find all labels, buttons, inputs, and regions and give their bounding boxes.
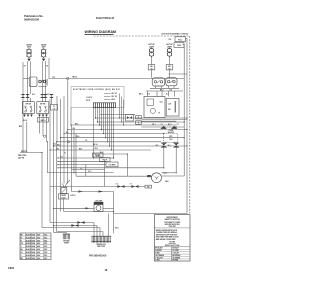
wire EOC pin drop <box>93 108 95 158</box>
wire SU1 lead b lower <box>30 98 32 102</box>
row label smudges <box>56 148 82 158</box>
wire row 169 <box>72 169 106 171</box>
wire bus row <box>68 129 188 131</box>
svg-text:105C: 105C <box>44 243 47 245</box>
wire to ground comb <box>54 232 67 234</box>
connector pair <box>21 94 26 98</box>
junction open circles <box>44 135 46 137</box>
wire staircase feeder <box>56 96 58 142</box>
wire label box <box>166 65 173 71</box>
cooling fan motor M2 <box>94 199 103 211</box>
lead connector mark <box>45 115 48 117</box>
connector box P14 <box>174 43 184 48</box>
svg-text:600V: 600V <box>37 258 40 260</box>
wire lower link <box>64 211 114 213</box>
svg-text:BU: BU <box>21 249 23 251</box>
svg-text:INF SW: INF SW <box>40 103 46 105</box>
indicator lamp <box>148 44 155 57</box>
wire EOC pin drop <box>95 108 97 118</box>
wire EOC pin drop <box>97 108 99 122</box>
svg-text:ELECTROLUX: ELECTROLUX <box>96 16 114 20</box>
wire supply cord <box>20 152 42 154</box>
wire to terminal pin <box>93 223 95 237</box>
latch box B2 <box>166 99 179 117</box>
wire motor left lead row <box>76 175 152 177</box>
wire drop <box>60 138 62 212</box>
wire bus row <box>50 149 151 151</box>
lead connector mark <box>42 115 45 117</box>
sensor plug left <box>161 143 167 147</box>
inline connector arrow <box>86 207 90 209</box>
svg-text:C802: C802 <box>8 267 15 270</box>
EOC pin header connector <box>93 103 116 108</box>
wire relay lead <box>154 86 156 88</box>
wire switch feed down <box>26 122 28 153</box>
wire EOC pin drop <box>113 108 115 158</box>
wire label box W <box>136 116 142 120</box>
svg-text:BEFORE SERVICING: BEFORE SERVICING <box>165 224 181 226</box>
wire below clock b <box>142 120 177 122</box>
wire P13 out b <box>185 39 187 41</box>
wire under relays a <box>150 87 179 89</box>
wire motor right lead <box>161 175 184 177</box>
svg-text:OVEN: OVEN <box>169 130 173 132</box>
electronic oven control EOC box <box>71 87 124 108</box>
wire EOC relay out <box>121 97 123 123</box>
svg-text:P1: P1 <box>53 106 55 108</box>
wire left edge lower <box>22 98 24 153</box>
terminal block connector G2 <box>92 236 112 248</box>
label box P11 <box>93 153 104 157</box>
svg-text:1091: 1091 <box>169 139 173 141</box>
wire EOC pin drop <box>107 108 109 142</box>
svg-text:PK PINK: PK PINK <box>172 260 178 262</box>
wire staircase feeder <box>53 111 55 146</box>
svg-text:RLY K2: RLY K2 <box>112 96 117 98</box>
wire left edge upper <box>22 62 24 94</box>
wire to terminal pin <box>96 226 98 237</box>
wire switch to P1 <box>49 106 51 108</box>
wire drop to row 172 <box>46 142 48 173</box>
wire motor M2 right <box>103 207 114 209</box>
wire bake feed <box>50 186 145 188</box>
wire bus row <box>57 141 162 143</box>
infinite switch S2 <box>37 102 49 114</box>
relay K2 <box>166 78 177 86</box>
wire SU1 lead a <box>27 61 29 101</box>
svg-text:RLY K1: RLY K1 <box>112 93 117 95</box>
relay K1 <box>152 78 165 86</box>
wire to terminal pin <box>102 232 104 237</box>
wire drop <box>67 130 69 184</box>
relay labels row <box>160 89 172 91</box>
ground connector G1 <box>63 234 70 244</box>
svg-text:105C: 105C <box>44 234 47 236</box>
wire bottom c <box>42 227 100 229</box>
wire sensor lead b <box>175 141 177 144</box>
wire EOC relay out <box>119 94 121 119</box>
wire labels row <box>152 124 179 126</box>
lead connector mark <box>30 115 33 117</box>
wire feed to terminal block <box>108 214 110 237</box>
wire EOC pin drop <box>111 108 113 150</box>
wire relay lead <box>161 86 163 88</box>
svg-text:600V: 600V <box>37 234 40 236</box>
wire staircase feeder <box>63 96 65 134</box>
svg-text:OR-6: OR-6 <box>76 136 80 138</box>
wire lock feed diag <box>67 180 71 184</box>
wire bottom b <box>54 225 98 227</box>
wire to terminal pin <box>99 228 101 237</box>
wiring code table <box>20 233 51 260</box>
svg-text:GN GREEN: GN GREEN <box>172 257 180 259</box>
svg-text:P11 BK: P11 BK <box>95 155 101 157</box>
wire bottom a <box>50 222 94 224</box>
wire bus row <box>54 145 188 147</box>
svg-text:W WHITE: W WHITE <box>155 250 161 252</box>
svg-text:V VIOLET: V VIOLET <box>172 253 179 255</box>
wire ground stub <box>65 233 67 235</box>
wire bus row <box>98 121 185 123</box>
wire bottom d <box>57 231 104 233</box>
wire drop to clock box <box>161 91 163 97</box>
inline connector <box>131 185 138 188</box>
svg-text:BU2: BU2 <box>79 148 82 150</box>
svg-text:WIRING SHOWN WITH DOOR: WIRING SHOWN WITH DOOR <box>156 230 178 232</box>
svg-text:P12 W: P12 W <box>102 160 107 162</box>
wire bus row <box>58 167 164 169</box>
svg-text:INF SW: INF SW <box>26 103 32 105</box>
console dashed box top edge <box>94 35 190 37</box>
door lock switch <box>61 184 67 194</box>
indicator lamp <box>166 44 173 57</box>
wire right run b <box>183 44 185 176</box>
EOC terminal row <box>104 99 116 101</box>
wire junction drop <box>67 80 69 130</box>
wire switch lead down <box>27 113 29 117</box>
sensor label <box>168 130 175 134</box>
limiter coil box <box>29 77 37 86</box>
wire bus row <box>58 164 106 166</box>
svg-text:R-2: R-2 <box>170 89 173 91</box>
wire motor to sensor <box>162 172 177 174</box>
wire lamp lead <box>151 56 153 64</box>
wire label box R <box>136 121 142 125</box>
svg-text:105C: 105C <box>44 240 47 242</box>
inline connector <box>77 221 84 224</box>
wire bus row <box>96 117 188 119</box>
wire bus row <box>71 124 176 126</box>
wire lamp lead <box>169 56 171 64</box>
svg-text:PWR CORD: PWR CORD <box>97 246 105 248</box>
svg-text:105C: 105C <box>44 237 47 239</box>
junction node open circle <box>67 141 69 143</box>
svg-text:V-1: V-1 <box>177 124 179 126</box>
wire lock motor feed <box>72 191 114 193</box>
connector pair <box>43 94 48 98</box>
svg-text:Y-6: Y-6 <box>116 184 118 186</box>
svg-text:105C: 105C <box>44 255 47 257</box>
wire drop <box>85 165 87 177</box>
svg-text:105C: 105C <box>44 249 47 251</box>
wire drop to clock box <box>174 91 176 97</box>
svg-text:P5 P6: P5 P6 <box>86 100 90 102</box>
svg-text:V: V <box>21 255 22 257</box>
wire bus row <box>100 114 135 116</box>
wire to limiter bus <box>48 58 50 78</box>
svg-text:R RED: R RED <box>155 253 159 255</box>
label box P27 <box>106 162 118 167</box>
svg-text:BK5: BK5 <box>19 126 22 128</box>
surface unit <box>26 45 32 62</box>
wire staircase feeder <box>49 99 51 150</box>
wire row 172 <box>47 172 113 174</box>
connector pair <box>49 94 54 98</box>
motor lead connector <box>147 175 151 177</box>
svg-text:DISCONNECT POWER: DISCONNECT POWER <box>164 222 181 224</box>
label box under motor <box>144 185 146 187</box>
svg-text:600V: 600V <box>37 246 40 248</box>
supply cord labels <box>18 151 27 160</box>
wire switch lead down <box>46 113 48 141</box>
svg-text:BK-10: BK-10 <box>41 120 46 122</box>
wire drop <box>63 134 65 184</box>
sensor connector arrows <box>161 126 178 129</box>
clock box B1 <box>144 97 165 118</box>
wire sensor lead a <box>163 141 165 144</box>
wire label box <box>148 65 155 71</box>
wire switch lead down <box>31 113 33 117</box>
wire EOC pin drop <box>101 108 103 130</box>
door lock label box <box>59 194 69 200</box>
svg-text:Publication No.: Publication No. <box>24 14 44 18</box>
wire gauge labels <box>93 143 104 158</box>
svg-text:BR BROWN: BR BROWN <box>172 255 180 257</box>
svg-text:105C: 105C <box>44 258 47 260</box>
wire P14 out <box>183 43 185 45</box>
wire P13 out a <box>186 38 187 40</box>
svg-text:R-10: R-10 <box>32 94 35 96</box>
wire limiter feed <box>23 77 29 79</box>
wire limiter bus <box>49 77 185 79</box>
connector pair <box>25 94 30 98</box>
wire drop to motor <box>126 154 128 176</box>
bus wire labels <box>57 123 87 146</box>
title underline <box>85 33 114 35</box>
svg-text:Y-6: Y-6 <box>85 140 87 142</box>
svg-text:BK-12: BK-12 <box>73 77 78 79</box>
svg-text:600V: 600V <box>37 249 40 251</box>
label box P1 <box>51 105 58 111</box>
svg-text:105C: 105C <box>44 246 47 248</box>
wire drop <box>53 146 55 233</box>
svg-text:BU BLUE: BU BLUE <box>172 248 178 250</box>
wire under relays b <box>146 90 183 92</box>
wire drop to clock box <box>147 91 149 97</box>
svg-text:GN-8: GN-8 <box>115 228 119 230</box>
svg-text:GY: GY <box>21 252 23 254</box>
wire lamp lead lower <box>169 70 171 78</box>
svg-text:R1: R1 <box>24 66 26 68</box>
wire relay lead <box>173 86 175 88</box>
arrow connector <box>79 190 83 192</box>
svg-text:600V: 600V <box>37 255 40 257</box>
notes and legend box <box>154 215 190 262</box>
wire SU2 lead b <box>44 61 46 101</box>
inline connector <box>71 224 78 227</box>
wire P1 feed <box>51 98 53 105</box>
svg-text:Y YELLOW: Y YELLOW <box>155 257 163 259</box>
infinite switch S1 <box>22 102 34 114</box>
wire EOC pin drop <box>109 108 111 146</box>
wire sensor drop a <box>163 147 165 168</box>
svg-text:WIRING DIAGRAM: WIRING DIAGRAM <box>85 30 117 34</box>
wire below clock a <box>142 119 188 121</box>
EOC terminal row <box>104 93 117 95</box>
svg-text:600V: 600V <box>37 240 40 242</box>
svg-text:LCH: LCH <box>168 104 171 106</box>
wire bottom run right <box>114 213 188 215</box>
wire drop <box>49 150 51 223</box>
svg-text:R-11: R-11 <box>47 94 50 96</box>
svg-text:SAFETY NOTICE: SAFETY NOTICE <box>165 218 181 221</box>
EOC left labels <box>86 96 92 102</box>
limiter contacts <box>39 79 48 87</box>
connector box P13 <box>169 37 186 42</box>
svg-text:W-12: W-12 <box>95 148 99 150</box>
convection fan motor M1 <box>147 172 169 183</box>
svg-text:BU-6: BU-6 <box>57 144 61 146</box>
wire SU2 lead a lower <box>41 98 43 102</box>
svg-text:R2: R2 <box>46 66 48 68</box>
lead wire labels <box>24 66 49 68</box>
svg-text:SWITCHES IN OFF POSITION: SWITCHES IN OFF POSITION <box>156 234 177 236</box>
wire bus row <box>58 160 106 162</box>
wire drop <box>75 134 77 177</box>
wire bus row <box>64 133 164 135</box>
label box BK-10 <box>38 118 49 123</box>
wire motor M2 left <box>54 207 95 209</box>
wire drop <box>41 153 43 228</box>
svg-text:105C: 105C <box>44 252 47 254</box>
connector pair <box>40 94 45 98</box>
svg-text:Y-7: Y-7 <box>130 184 132 186</box>
svg-text:Y2: Y2 <box>64 152 66 154</box>
lead connector mark <box>27 115 30 117</box>
svg-text:5995421609: 5995421609 <box>24 18 39 22</box>
EOC terminal row <box>104 96 117 98</box>
oven sensor RTD dashed box <box>164 134 178 143</box>
wire staircase feeder <box>70 108 72 126</box>
wire bus row <box>61 137 185 139</box>
wire drop to bake feed <box>104 161 106 186</box>
svg-text:12: 12 <box>53 108 55 110</box>
wire SU1 lead b upper <box>30 61 32 94</box>
svg-text:Y: Y <box>21 246 22 248</box>
wire bus row <box>94 153 128 155</box>
wire drop to clock box <box>168 91 170 97</box>
wire EOC relay out <box>123 100 125 126</box>
inline connector <box>117 185 124 188</box>
wire switch lead down <box>42 113 44 136</box>
wire labels <box>80 168 91 173</box>
wire relay lead <box>168 86 170 88</box>
wire SU2 lead a upper <box>41 61 43 94</box>
wire EOC pin drop <box>103 108 105 134</box>
svg-text:600V: 600V <box>37 237 40 239</box>
svg-text:SUPPLY: SUPPLY <box>21 151 27 153</box>
wire EOC pin drop <box>99 108 101 125</box>
wire drop to clock box <box>156 91 158 97</box>
wire right run a <box>186 39 188 214</box>
wire switch lead down <box>24 113 26 117</box>
console dashed box right edge <box>189 36 191 214</box>
svg-text:TERM BLOCK: TERM BLOCK <box>96 244 107 246</box>
surface unit <box>41 45 47 62</box>
wire EOC pin drop <box>105 108 107 138</box>
svg-text:GY-2: GY-2 <box>88 171 91 173</box>
lead connector mark <box>23 115 26 117</box>
lead connector mark <box>38 115 41 117</box>
svg-text:V-2: V-2 <box>80 168 82 170</box>
wire staircase feeder <box>60 99 62 138</box>
svg-text:P27 MTR: P27 MTR <box>109 165 117 167</box>
wire lock to lower bus <box>63 199 65 212</box>
label box P12 <box>100 158 111 162</box>
wire sensor drop b <box>175 147 177 173</box>
wire drop <box>71 125 73 192</box>
wire lamp lead lower <box>151 70 153 78</box>
svg-text:GROUND: GROUND <box>63 240 69 242</box>
svg-text:ELECTRONIC OVEN CONTROL (EO: ELECTRONIC OVEN CONTROL (EOC) BK W R <box>73 89 120 91</box>
svg-text:600V: 600V <box>37 243 40 245</box>
wire drop <box>73 130 75 173</box>
connector box P2 <box>126 115 134 122</box>
wire switch lead down <box>39 113 41 133</box>
svg-text:600V: 600V <box>37 252 40 254</box>
wire drop <box>56 142 58 232</box>
wire label box RD <box>145 185 152 188</box>
svg-text:P/N 5995421609: P/N 5995421609 <box>89 254 107 257</box>
svg-text:BK-6: BK-6 <box>75 123 79 125</box>
wire console link <box>169 73 187 75</box>
svg-text:P13-1: P13-1 <box>178 39 182 41</box>
arrow connector <box>99 190 103 192</box>
svg-text:PWR CORD: PWR CORD <box>18 155 27 157</box>
sensor plug right <box>173 143 179 147</box>
wire below clock c <box>142 126 185 128</box>
wire bus row <box>58 157 114 159</box>
wire right drop <box>113 192 115 234</box>
